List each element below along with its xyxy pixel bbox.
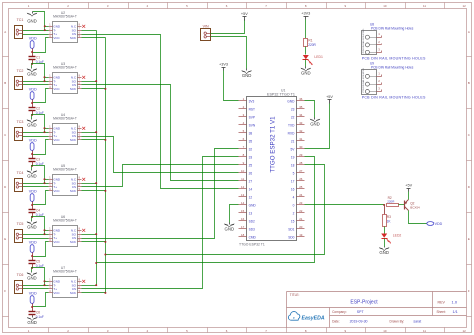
ground block 1 top bbox=[27, 12, 37, 24]
svg-text:PCB DIN RAIL MOUNTING: PCB DIN RAIL MOUNTING bbox=[362, 28, 365, 53]
wire node to R3 bbox=[384, 205, 386, 215]
ground bottom of chain bbox=[27, 316, 37, 326]
wire VDD to U4 VCC bbox=[33, 140, 49, 155]
svg-text:GND: GND bbox=[27, 19, 37, 24]
svg-text:+5V: +5V bbox=[241, 12, 248, 16]
svg-text:13: 13 bbox=[249, 211, 253, 215]
svg-text:PCB DIN Rail Mounting Holes: PCB DIN Rail Mounting Holes bbox=[371, 66, 414, 70]
wire VDD symbol to capacitor node bbox=[32, 202, 34, 205]
svg-text:GND: GND bbox=[242, 73, 252, 78]
wire VIN pin2 to GND bbox=[211, 37, 247, 69]
wire U2 SO to SO bus bbox=[82, 30, 97, 32]
svg-text:+3V3: +3V3 bbox=[219, 63, 228, 67]
wire VDD symbol to capacitor node bbox=[32, 100, 34, 103]
svg-text:GND: GND bbox=[301, 71, 311, 76]
svg-text:10: 10 bbox=[383, 329, 387, 333]
ground LED2 return bbox=[379, 247, 389, 256]
svg-text:SCK: SCK bbox=[70, 87, 76, 91]
svg-text:BCX54: BCX54 bbox=[410, 205, 420, 209]
svg-text:VCC: VCC bbox=[53, 36, 60, 40]
thermocouple connector TC1 bbox=[15, 18, 24, 39]
wire U4 pin1 GND bbox=[45, 128, 49, 130]
svg-text:19: 19 bbox=[291, 155, 295, 159]
svg-text:18: 18 bbox=[241, 233, 245, 237]
wire U2 pin1 GND bbox=[45, 26, 49, 28]
svg-text:21: 21 bbox=[291, 139, 295, 143]
svg-text:12: 12 bbox=[462, 329, 466, 333]
resistor R3 1K bbox=[383, 215, 392, 227]
svg-text:C: C bbox=[468, 133, 470, 137]
svg-text:22: 22 bbox=[299, 209, 303, 213]
wire capacitor C4 bottom to ground bbox=[32, 217, 33, 221]
svg-text:31: 31 bbox=[299, 137, 303, 141]
no-connect mark on U2 pin 8 bbox=[82, 25, 85, 28]
svg-text:GND: GND bbox=[27, 320, 37, 325]
svg-text:GND: GND bbox=[287, 99, 295, 103]
ground below C2 bbox=[27, 119, 37, 128]
svg-text:14: 14 bbox=[241, 201, 245, 205]
svg-text:34: 34 bbox=[299, 113, 303, 117]
wire U2 SCK to SCK bus bbox=[82, 37, 106, 39]
svg-text:3V3: 3V3 bbox=[249, 99, 255, 103]
wire +3V3 to R1 bbox=[305, 20, 307, 39]
wire U3 SCK to SCK bus bbox=[82, 88, 106, 90]
svg-text:F: F bbox=[468, 289, 470, 293]
wire R1 to LED1 bbox=[305, 47, 307, 55]
thermocouple converter IC U2 (MAX6675ISA+T) bbox=[49, 11, 82, 43]
thermocouple connector TC4 bbox=[15, 171, 24, 192]
transistor Q2 BCX54 bbox=[405, 200, 421, 211]
svg-text:TXD: TXD bbox=[288, 123, 295, 127]
svg-text:PCB DIN Rail Mounting Holes: PCB DIN Rail Mounting Holes bbox=[371, 26, 414, 30]
wire U3 CS to ESP32 GPIO27 bbox=[82, 85, 239, 181]
svg-text:R3: R3 bbox=[387, 215, 391, 219]
wire U4 SO to SO bus bbox=[82, 132, 97, 134]
junction dot GPIO0 node bbox=[383, 204, 385, 206]
svg-text:35: 35 bbox=[249, 139, 253, 143]
svg-text:SPT: SPT bbox=[357, 310, 365, 314]
ground below C5 bbox=[27, 272, 37, 281]
svg-text:SCK: SCK bbox=[70, 240, 76, 244]
svg-text:+5V: +5V bbox=[405, 184, 412, 188]
svg-text:SD1: SD1 bbox=[288, 227, 294, 231]
svg-text:GND: GND bbox=[27, 275, 37, 280]
title block bbox=[287, 292, 467, 328]
svg-text:2: 2 bbox=[293, 211, 295, 215]
capacitor C4 0.1uF bbox=[29, 205, 44, 217]
VDD power symbol (block 3) bbox=[29, 138, 37, 150]
svg-text:D: D bbox=[468, 185, 470, 189]
svg-text:5: 5 bbox=[293, 171, 295, 175]
svg-text:MAX6675ISA+T: MAX6675ISA+T bbox=[53, 66, 77, 70]
resistor R2 220R bbox=[387, 196, 399, 206]
svg-text:220R: 220R bbox=[387, 200, 395, 204]
power flag +3V3 (ESP32 3V3) bbox=[219, 63, 228, 71]
junction dots block 5 bbox=[31, 229, 45, 269]
svg-text:TC4: TC4 bbox=[17, 171, 24, 175]
thermocouple converter IC U7 (MAX6675ISA+T) bbox=[49, 266, 82, 298]
VDD power symbol (block 4) bbox=[29, 189, 37, 201]
svg-text:0: 0 bbox=[293, 203, 295, 207]
ground below C3 bbox=[27, 170, 37, 179]
svg-text:VDD: VDD bbox=[29, 87, 37, 91]
svg-text:SCK: SCK bbox=[70, 291, 76, 295]
EasyEDA logo bbox=[288, 312, 324, 322]
svg-text:MAX6675ISA+T: MAX6675ISA+T bbox=[53, 270, 77, 274]
svg-text:25: 25 bbox=[249, 163, 253, 167]
svg-text:VDD: VDD bbox=[29, 36, 37, 40]
svg-text:16: 16 bbox=[241, 217, 245, 221]
wire GND net block 3 bbox=[32, 115, 45, 133]
svg-text:29: 29 bbox=[299, 153, 303, 157]
junction dots block 1 bbox=[31, 25, 46, 65]
wire U5 pin1 GND bbox=[45, 179, 49, 181]
wire U4 CS to ESP32 GPIO26 bbox=[82, 137, 239, 173]
svg-text:Drawn By:: Drawn By: bbox=[390, 320, 405, 324]
svg-text:EasyEDA: EasyEDA bbox=[302, 315, 325, 321]
svg-text:C1: C1 bbox=[36, 55, 40, 59]
svg-text:e: e bbox=[293, 316, 295, 320]
power flag +5V (VIN supply) bbox=[241, 12, 248, 21]
no-connect mark on U7 pin 8 bbox=[82, 280, 85, 283]
svg-text:23: 23 bbox=[291, 107, 295, 111]
wire LED1 to GND bbox=[305, 60, 307, 67]
svg-text:+3V3: +3V3 bbox=[301, 11, 310, 15]
svg-text:SVP: SVP bbox=[249, 115, 255, 119]
svg-text:C6: C6 bbox=[36, 310, 40, 314]
svg-text:Sheet:: Sheet: bbox=[437, 310, 446, 314]
svg-text:Date:: Date: bbox=[332, 320, 340, 324]
svg-text:18: 18 bbox=[291, 163, 295, 167]
svg-text:D: D bbox=[4, 185, 6, 189]
junction dots block 3 bbox=[31, 127, 45, 167]
wire ESP32 GND pin14 to ground bbox=[230, 205, 239, 223]
wire U6 SCK to SCK bus bbox=[82, 241, 106, 243]
ESP32 module U1 (ESP32 TTGO T1) bbox=[239, 88, 305, 246]
svg-text:LED2: LED2 bbox=[393, 234, 402, 238]
svg-text:Company:: Company: bbox=[332, 310, 347, 314]
svg-text:MAX6675ISA+T: MAX6675ISA+T bbox=[53, 219, 77, 223]
wire U6 SO to SO bus bbox=[82, 234, 97, 236]
thermocouple connector TC5 bbox=[15, 222, 24, 243]
VDD power symbol (block 1) bbox=[29, 36, 37, 48]
svg-text:14: 14 bbox=[249, 187, 253, 191]
wire TC1 pin2 to U2 T+ bbox=[23, 34, 49, 36]
ground ESP32 right bbox=[310, 118, 320, 127]
svg-text:1.0: 1.0 bbox=[452, 299, 458, 304]
svg-text:REV: REV bbox=[438, 300, 446, 304]
svg-text:TTGO ESP32 T1 V1: TTGO ESP32 T1 V1 bbox=[269, 116, 276, 173]
wire TC2 pin1 to U3 T- bbox=[23, 81, 49, 83]
VDD power symbol (block 2) bbox=[29, 87, 37, 99]
svg-text:C5: C5 bbox=[36, 259, 40, 263]
svg-text:19: 19 bbox=[299, 233, 303, 237]
svg-text:TC2: TC2 bbox=[17, 69, 24, 73]
wire TC6 pin2 to U7 T+ bbox=[23, 288, 49, 290]
wire GND net block 1 bbox=[33, 12, 45, 31]
wire R2 to Q2 base bbox=[399, 204, 405, 206]
svg-text:24: 24 bbox=[299, 193, 303, 197]
wire TC1 pin1 to U2 T- bbox=[23, 30, 49, 32]
wire +3V3 to ESP32 3V3 pin bbox=[224, 71, 239, 101]
wire VDD symbol to capacitor node bbox=[32, 49, 34, 53]
svg-text:TC3: TC3 bbox=[17, 120, 24, 124]
LED LED2 bbox=[381, 234, 401, 244]
wire LED2 to GND bbox=[384, 239, 386, 247]
wire TC5 pin1 to U6 T- bbox=[23, 234, 49, 236]
svg-text:CMD: CMD bbox=[249, 235, 257, 239]
no-connect mark on U3 pin 8 bbox=[82, 76, 85, 79]
svg-text:GND: GND bbox=[379, 250, 389, 255]
svg-text:sarat: sarat bbox=[413, 319, 421, 323]
no-connect mark on U5 pin 8 bbox=[82, 178, 85, 181]
svg-text:TTGO ESP32 T1: TTGO ESP32 T1 bbox=[239, 242, 265, 246]
wire capacitor C2 bottom to ground bbox=[32, 115, 33, 119]
wire R3 to LED2 bbox=[384, 227, 386, 234]
ground ESP32 left bbox=[224, 223, 234, 232]
wire capacitor C5 bottom to ground bbox=[32, 268, 33, 272]
svg-text:A: A bbox=[468, 30, 470, 34]
wire Q2 emitter to +5V bbox=[408, 192, 410, 200]
svg-text:22: 22 bbox=[291, 115, 295, 119]
svg-text:VDD: VDD bbox=[29, 240, 37, 244]
wire U6 CS to ESP32 GPIO32 bbox=[82, 149, 239, 239]
svg-text:C3: C3 bbox=[36, 157, 40, 161]
junction dots block 6 bbox=[31, 280, 45, 308]
svg-text:4: 4 bbox=[293, 195, 295, 199]
capacitor C2 0.1uF bbox=[29, 103, 44, 115]
svg-text:SD2: SD2 bbox=[249, 219, 255, 223]
wire VDD symbol to capacitor node bbox=[32, 151, 34, 155]
svg-text:0.1uF: 0.1uF bbox=[36, 315, 44, 319]
wire VIN pin1 to +5V bbox=[211, 20, 245, 34]
svg-text:VCC: VCC bbox=[53, 291, 60, 295]
svg-text:11: 11 bbox=[241, 177, 244, 181]
wire U5 SO to SO bus bbox=[82, 183, 97, 185]
svg-text:MAX6675ISA+T: MAX6675ISA+T bbox=[53, 117, 77, 121]
wire VDD symbol to capacitor node bbox=[32, 304, 34, 307]
thermocouple converter IC U5 (MAX6675ISA+T) bbox=[49, 164, 82, 196]
svg-text:B: B bbox=[4, 81, 6, 85]
no-connect mark on U6 pin 8 bbox=[82, 229, 85, 232]
power flag +3V3 (LED1 supply) bbox=[301, 11, 310, 19]
svg-text:12: 12 bbox=[249, 195, 253, 199]
svg-text:27: 27 bbox=[299, 169, 303, 173]
wire U3 pin1 GND bbox=[45, 77, 49, 79]
svg-text:ESP32 TTGO T1: ESP32 TTGO T1 bbox=[267, 92, 295, 96]
power flag +5V (ESP32 5V) bbox=[326, 95, 333, 104]
svg-text:16: 16 bbox=[291, 187, 295, 191]
wire VDD to U2 VCC bbox=[33, 38, 49, 53]
svg-text:MAX6675ISA+T: MAX6675ISA+T bbox=[53, 168, 77, 172]
wire GND net block 4 bbox=[32, 166, 45, 184]
wire +5V to ESP32 5V pin bbox=[305, 104, 330, 149]
svg-text:RST: RST bbox=[249, 107, 255, 111]
junction dots block 4 bbox=[31, 178, 45, 218]
svg-text:TC5: TC5 bbox=[17, 222, 24, 226]
power flag +5V (Q2 emitter) bbox=[405, 184, 412, 192]
svg-text:VDD: VDD bbox=[29, 291, 37, 295]
svg-text:VDD: VDD bbox=[29, 138, 37, 142]
wire U3 SO to SO bus bbox=[82, 81, 97, 83]
svg-text:PCB DIN RAIL MOUNTING HOLES: PCB DIN RAIL MOUNTING HOLES bbox=[362, 96, 426, 100]
capacitor C6 0.1uF bbox=[29, 307, 44, 319]
wire U6 pin1 GND bbox=[45, 230, 49, 232]
capacitor C5 0.1uF bbox=[29, 257, 44, 268]
svg-text:+5V: +5V bbox=[326, 95, 333, 99]
svg-text:GND: GND bbox=[27, 71, 37, 76]
svg-text:28: 28 bbox=[299, 161, 303, 165]
wire SO bus (MISO) bbox=[96, 31, 98, 286]
junction dots SO bus bbox=[95, 80, 97, 286]
LED LED1 bbox=[303, 55, 323, 65]
svg-text:15: 15 bbox=[241, 209, 245, 213]
svg-text:25: 25 bbox=[299, 185, 303, 189]
svg-text:C2: C2 bbox=[36, 106, 40, 110]
svg-text:E: E bbox=[4, 237, 6, 241]
svg-text:26: 26 bbox=[249, 171, 253, 175]
svg-text:MAX6675ISA+T: MAX6675ISA+T bbox=[53, 15, 77, 19]
net port VDD bbox=[427, 222, 443, 226]
ground below C4 bbox=[27, 221, 37, 230]
svg-text:VDD: VDD bbox=[435, 222, 443, 226]
svg-text:GND: GND bbox=[249, 203, 257, 207]
wire VDD to U3 VCC bbox=[33, 89, 49, 103]
svg-text:A: A bbox=[4, 30, 6, 34]
svg-text:VDD: VDD bbox=[29, 189, 37, 193]
wire U5 SCK to SCK bus bbox=[82, 190, 106, 192]
svg-text:ESP-Project: ESP-Project bbox=[350, 299, 378, 305]
svg-text:13: 13 bbox=[241, 193, 245, 197]
wire VDD to U6 VCC bbox=[33, 242, 49, 257]
svg-text:SD0: SD0 bbox=[288, 235, 294, 239]
ground LED1 return bbox=[301, 67, 311, 76]
svg-text:C4: C4 bbox=[36, 208, 40, 212]
wire VDD symbol to capacitor node bbox=[32, 253, 34, 257]
svg-text:GND: GND bbox=[310, 122, 320, 127]
svg-text:11: 11 bbox=[423, 329, 426, 333]
wire U2 CS to ESP32 GPIO14 bbox=[82, 35, 239, 189]
wire GND net block 5 bbox=[32, 217, 45, 235]
svg-text:TC6: TC6 bbox=[17, 273, 24, 277]
svg-text:F: F bbox=[4, 289, 6, 293]
wire capacitor C3 bottom to ground bbox=[32, 166, 33, 170]
junction dots block 2 bbox=[31, 76, 45, 116]
wire TC4 pin1 to U5 T- bbox=[23, 183, 49, 185]
svg-text:VCC: VCC bbox=[53, 240, 60, 244]
capacitor C1 0.1uF bbox=[29, 53, 44, 64]
svg-text:11: 11 bbox=[423, 4, 426, 8]
svg-text:17: 17 bbox=[241, 225, 245, 229]
svg-text:21: 21 bbox=[299, 217, 303, 221]
wire VDD to U7 VCC bbox=[33, 293, 49, 307]
svg-text:SCK: SCK bbox=[70, 189, 76, 193]
ground below C1 bbox=[27, 68, 37, 77]
svg-text:17: 17 bbox=[291, 179, 295, 183]
wire Q2 collector to VDD port bbox=[409, 211, 427, 224]
svg-text:33: 33 bbox=[249, 155, 253, 159]
wire GND net block 2 bbox=[32, 64, 45, 82]
wire VDD to U5 VCC bbox=[33, 191, 49, 205]
svg-text:VCC: VCC bbox=[53, 138, 60, 142]
svg-text:33: 33 bbox=[299, 121, 303, 125]
wire U7 SCK to SCK bus bbox=[82, 292, 106, 294]
svg-text:GND: GND bbox=[27, 224, 37, 229]
svg-text:R1: R1 bbox=[308, 39, 312, 43]
wire U7 SO to SO bus bbox=[82, 285, 97, 287]
svg-text:PCB DIN RAIL MOUNTING HOLES: PCB DIN RAIL MOUNTING HOLES bbox=[362, 56, 426, 60]
svg-text:TC1: TC1 bbox=[17, 18, 24, 22]
svg-text:12: 12 bbox=[462, 4, 466, 8]
svg-text:2019-09-30: 2019-09-30 bbox=[350, 319, 368, 323]
wire TC6 pin1 to U7 T- bbox=[23, 285, 49, 287]
wire U4 SCK to SCK bus bbox=[82, 139, 106, 141]
svg-text:VCC: VCC bbox=[53, 87, 60, 91]
svg-text:B: B bbox=[468, 81, 470, 85]
wire U5 CS to ESP32 GPIO25 bbox=[82, 165, 239, 187]
wire TC5 pin2 to U6 T+ bbox=[23, 238, 49, 240]
svg-text:36: 36 bbox=[299, 97, 303, 101]
svg-text:SCK: SCK bbox=[70, 36, 76, 40]
svg-text:GND: GND bbox=[225, 227, 235, 232]
ground VIN return bbox=[241, 69, 251, 79]
svg-text:27: 27 bbox=[249, 179, 253, 183]
svg-text:SD3: SD3 bbox=[249, 227, 255, 231]
mounting holes part U8 (PCB DIN Rail Mounting Holes) bbox=[362, 23, 426, 61]
svg-text:10: 10 bbox=[241, 169, 245, 173]
resistor R1 220R bbox=[304, 39, 317, 48]
power connector VIN bbox=[201, 25, 211, 41]
svg-text:15: 15 bbox=[291, 219, 295, 223]
svg-text:TITLE:: TITLE: bbox=[290, 293, 300, 297]
svg-text:PCB DIN RAIL MOUNTING: PCB DIN RAIL MOUNTING bbox=[362, 67, 365, 92]
thermocouple converter IC U3 (MAX6675ISA+T) bbox=[49, 62, 82, 94]
svg-text:LED1: LED1 bbox=[314, 55, 323, 59]
svg-text:SVN: SVN bbox=[249, 123, 256, 127]
thermocouple connector TC3 bbox=[15, 120, 24, 141]
svg-text:20: 20 bbox=[299, 225, 303, 229]
wire SCK bus bbox=[105, 38, 107, 293]
wire GND net block 6 bbox=[32, 268, 45, 286]
thermocouple converter IC U6 (MAX6675ISA+T) bbox=[49, 215, 82, 247]
thermocouple connector TC6 bbox=[15, 273, 24, 294]
svg-text:VCC: VCC bbox=[53, 189, 60, 193]
VDD power symbol (block 6) bbox=[29, 291, 37, 303]
wire TC3 pin2 to U4 T+ bbox=[23, 136, 49, 138]
VDD power symbol (block 5) bbox=[29, 240, 37, 252]
svg-text:35: 35 bbox=[299, 105, 303, 109]
svg-text:GND: GND bbox=[27, 122, 37, 127]
wire TC4 pin2 to U5 T+ bbox=[23, 186, 49, 188]
wire ESP32 GND pin36 to ground bbox=[305, 101, 315, 118]
mounting holes part U9 (PCB DIN Rail Mounting Holes) bbox=[362, 62, 426, 100]
svg-text:26: 26 bbox=[299, 177, 303, 181]
svg-text:32: 32 bbox=[299, 129, 303, 133]
svg-text:SCK: SCK bbox=[70, 138, 76, 142]
svg-text:30: 30 bbox=[299, 145, 303, 149]
wire TC2 pin2 to U3 T+ bbox=[23, 84, 49, 86]
svg-text:32: 32 bbox=[249, 147, 253, 151]
svg-text:GND: GND bbox=[27, 173, 37, 178]
wire U7 pin1 GND bbox=[45, 281, 49, 283]
wire ESP32 GPIO0 to R2/R3 node bbox=[305, 204, 385, 206]
svg-text:220R: 220R bbox=[308, 43, 316, 47]
svg-text:10: 10 bbox=[383, 4, 387, 8]
no-connect mark on U4 pin 8 bbox=[82, 127, 85, 130]
wire capacitor C1 bottom to ground bbox=[32, 64, 33, 68]
wire U7 CS to ESP32 GPIO33 bbox=[82, 157, 239, 289]
thermocouple connector TC2 bbox=[15, 69, 24, 90]
